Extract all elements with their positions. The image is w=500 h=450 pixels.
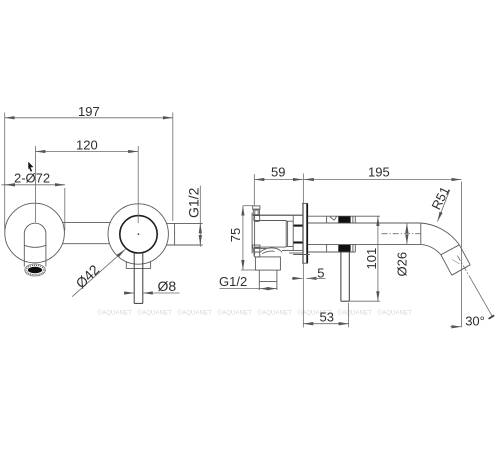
dimension G1/2 (front) [199,186,201,247]
G1/2 stub on right escutcheon [160,223,203,245]
svg-text:59: 59 [271,165,285,180]
svg-text:30°: 30° [465,314,485,329]
connector bar between escutcheons [60,222,114,243]
handle escutcheon circle (right, 2-Ø72) [108,204,168,264]
svg-text:197: 197 [78,104,100,119]
handle base inner circle Ø42 [120,216,157,253]
svg-text:R51: R51 [429,184,453,212]
svg-text:5: 5 [317,265,324,280]
wall line below plate [302,263,304,327]
dimension 197 [5,113,173,232]
handle lever rod (front, Ø8) [134,253,143,304]
centerline right circle [137,146,139,223]
svg-text:2-Ø72: 2-Ø72 [14,170,50,185]
dimension 59 [254,174,303,206]
valve body: bottom mounting screw [253,245,260,257]
aerator [25,264,46,276]
svg-text:Ø42: Ø42 [72,261,102,291]
spout centerline (dash-dot) [382,233,421,235]
concealed sleeve behind wall [308,216,380,252]
svg-text:101: 101 [364,248,379,270]
valve body main block [252,213,310,256]
connection pipes body-to-wall (dark) [294,226,303,243]
wall plate (side escutcheon) [302,203,304,263]
body elbow to outlet [255,248,282,254]
dimension 53 [303,303,348,327]
svg-text:120: 120 [76,138,98,153]
leader R51 [438,190,450,222]
leader Ø42 [72,249,125,296]
valve body: top mounting screw [253,206,260,222]
dimension 195 [303,174,461,204]
svg-text:©AQUANET: ©AQUANET [258,310,293,317]
dimension 120 [35,151,138,153]
spout bend R51 [421,223,470,275]
svg-text:75: 75 [228,228,243,242]
svg-text:G1/2: G1/2 [185,187,201,218]
svg-text:©AQUANET: ©AQUANET [98,310,133,317]
dimension Ø26 [406,223,408,244]
svg-text:©AQUANET: ©AQUANET [378,310,413,317]
dimension 101 [349,216,380,301]
handle lever rod (side) [341,252,349,301]
mouse cursor [28,162,33,172]
dimension Ø8 [124,292,180,294]
30 degree dimension [450,182,494,328]
watermark row [98,310,413,317]
G1/2 nipple (side) [259,270,277,290]
escutcheon bottom tab [126,261,150,268]
svg-text:53: 53 [320,310,334,325]
svg-text:Ø26: Ø26 [394,252,409,277]
svg-text:©AQUANET: ©AQUANET [218,310,253,317]
svg-text:Ø8: Ø8 [158,278,177,294]
spout tube (side) [308,223,421,244]
dimension 75 [241,206,256,270]
centerline left circle [34,146,36,222]
svg-text:©AQUANET: ©AQUANET [338,310,373,317]
svg-text:©AQUANET: ©AQUANET [138,310,173,317]
O-ring seals (black) [338,216,350,222]
svg-text:©AQUANET: ©AQUANET [178,310,213,317]
spout escutcheon circle (left, 2-Ø72) [5,203,65,263]
dimension 5 (wall plate thickness) [292,277,326,279]
dimension G1/2 (side) [220,288,277,290]
dimension 2-Ø72 [2,185,65,231]
svg-text:G1/2: G1/2 [219,274,247,289]
center dot of handle [138,233,140,235]
spout tube front view [24,223,46,266]
outlet block [255,257,280,270]
svg-text:195: 195 [368,165,390,180]
